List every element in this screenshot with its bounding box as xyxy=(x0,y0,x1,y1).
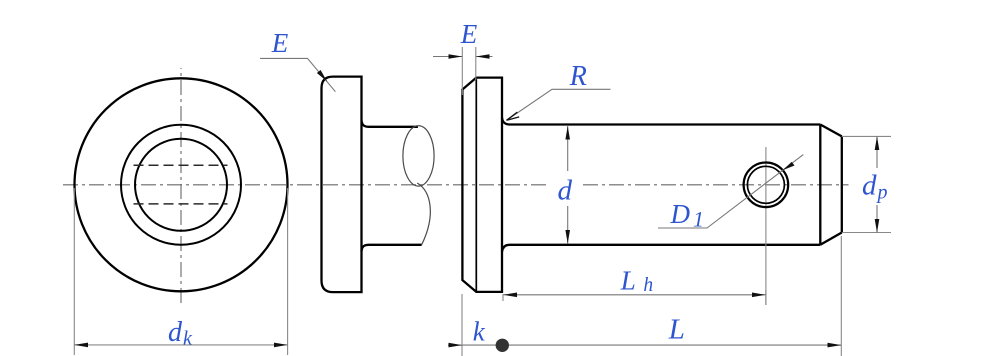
extension line dp bottom xyxy=(842,232,891,234)
dimension line L xyxy=(462,344,841,346)
extension line E right b xyxy=(475,47,477,80)
arrow E right a xyxy=(449,54,463,59)
chamfer top xyxy=(820,125,842,137)
chamfer bottom xyxy=(820,233,842,245)
chamfer edge line xyxy=(819,125,821,245)
extension line E right a xyxy=(461,47,463,95)
centerline horizontal main xyxy=(63,184,849,186)
hidden line upper xyxy=(134,164,228,166)
svg-text:k: k xyxy=(183,328,193,350)
arrow dp bottom xyxy=(875,219,880,233)
middle circle shank xyxy=(121,125,241,245)
svg-text:L: L xyxy=(620,266,636,296)
break line lower arc xyxy=(417,183,430,245)
svg-text:D: D xyxy=(670,199,691,229)
extension line L right xyxy=(840,236,842,356)
extension line dk right xyxy=(287,188,289,355)
svg-text:h: h xyxy=(643,275,653,296)
arrow D1 xyxy=(783,162,795,170)
label d xyxy=(550,171,581,204)
arrow Lh right xyxy=(752,293,766,298)
dimension d line bottom xyxy=(567,206,569,244)
svg-text:d: d xyxy=(558,175,573,207)
svg-text:E: E xyxy=(271,28,289,58)
dot origin L xyxy=(496,339,509,352)
svg-text:d: d xyxy=(168,317,183,348)
dimension line k tail xyxy=(448,344,462,346)
svg-text:p: p xyxy=(876,182,888,204)
arrow d top xyxy=(565,126,570,140)
shank top edge xyxy=(502,118,820,125)
middle view stub top edge xyxy=(362,121,418,127)
arrow dp top xyxy=(875,136,880,150)
svg-text:L: L xyxy=(668,314,685,346)
svg-text:R: R xyxy=(569,61,587,92)
right view flange xyxy=(462,78,502,292)
dimension E right right segment xyxy=(476,56,493,58)
extension line Lh right xyxy=(765,290,767,305)
leader D1 xyxy=(658,155,803,228)
break line upper lens xyxy=(403,126,434,186)
dimension line dk xyxy=(74,344,287,346)
svg-text:k: k xyxy=(473,316,486,346)
extension line Lh left xyxy=(502,294,504,301)
inner circle bore xyxy=(135,139,227,231)
arrow d bottom xyxy=(565,230,570,244)
middle view flange xyxy=(322,77,362,293)
arrow dk left xyxy=(74,343,88,348)
arrow dk right xyxy=(274,343,288,348)
centerline vertical front view xyxy=(180,68,182,303)
dimension line Lh xyxy=(504,294,766,296)
pin end face xyxy=(841,136,843,232)
arrow R open xyxy=(507,112,520,120)
extension line dp top xyxy=(842,135,891,137)
hole centerline vertical xyxy=(765,147,767,305)
arrow k xyxy=(449,343,463,348)
right view flange inner edge xyxy=(475,78,477,292)
shank bottom edge xyxy=(502,245,820,252)
leader E left xyxy=(260,58,335,91)
middle view stub bottom edge xyxy=(362,245,422,251)
arrow E left xyxy=(317,70,327,82)
dimension dp top segment xyxy=(876,136,878,168)
hole inner circle xyxy=(747,166,784,203)
svg-text:d: d xyxy=(862,170,877,202)
hole outer circle xyxy=(744,163,789,208)
hidden line lower xyxy=(134,203,228,205)
dimension E right left segment xyxy=(433,56,462,58)
dimension d line top xyxy=(567,126,569,172)
arrow E right b xyxy=(476,54,490,59)
leader R xyxy=(507,89,611,120)
extension line dk left xyxy=(73,188,75,355)
svg-text:E: E xyxy=(460,19,478,49)
dimension dp bottom segment xyxy=(876,205,878,233)
outer circle head dk xyxy=(75,78,288,291)
arrow L right xyxy=(828,343,842,348)
extension line k left xyxy=(461,294,463,356)
arrow Lh left xyxy=(504,293,518,298)
